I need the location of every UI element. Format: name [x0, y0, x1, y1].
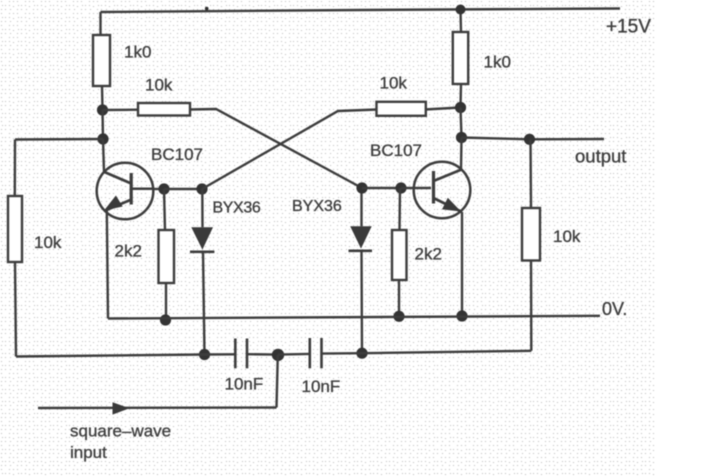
svg-text:BYX36: BYX36 [292, 198, 342, 215]
wire Q2 emitter down to 0V rail [461, 212, 463, 316]
wire R8 bottom down to trigger rail [530, 261, 533, 351]
wire trigger rail C1 to node P [248, 353, 278, 356]
node M junction top rail / R3 [456, 5, 466, 15]
node K junction R7 / 0V rail [393, 311, 404, 322]
wire R4 right to node G [425, 108, 461, 110]
resistor R8 10k right vertical [522, 208, 540, 261]
label +15V supply [606, 17, 651, 38]
label R5 value 10k [34, 233, 62, 252]
label Q2 type BC107 [370, 141, 422, 160]
svg-text:input: input [70, 443, 107, 462]
wire R2 right cross-coupling diagonal to Q2 base node [190, 109, 362, 188]
label R4 value 10k [380, 74, 408, 93]
svg-text:0V.: 0V. [602, 299, 627, 319]
diode D2 BYX36 right [349, 188, 373, 353]
diode D1 BYX36 left [190, 189, 214, 355]
svg-text:square–wave: square–wave [70, 421, 171, 440]
wire top +15V rail [101, 9, 621, 13]
svg-text:BYX36: BYX36 [213, 200, 261, 217]
wire left branch down to R5 [14, 140, 17, 197]
resistor R6 2k2 left vertical [159, 230, 175, 283]
node G junction R3 / R4 / collector rail [455, 102, 466, 113]
svg-text:10nF: 10nF [225, 375, 264, 394]
svg-text:output: output [575, 145, 626, 166]
label D2 type BYX36 [292, 198, 342, 215]
label R2 value 10k [145, 76, 173, 95]
wire node C to node D [164, 188, 202, 190]
resistor R5 10k far left vertical [8, 196, 22, 262]
svg-text:BC107: BC107 [370, 141, 422, 160]
wire node F to node J [362, 187, 401, 189]
node J junction Q2 base / R7 [395, 182, 406, 193]
label R1 value 1k0 [124, 43, 151, 62]
wire node O down to R8 [529, 139, 532, 208]
wire node B down to Q1 collector [103, 139, 104, 172]
node D junction Q1 base / D1 / cross-coupling [196, 183, 207, 194]
svg-text:BC107: BC107 [151, 145, 203, 164]
label R6 value 2k2 [115, 241, 142, 260]
transistor Q1 BC107 left [97, 163, 154, 220]
svg-text:10k: 10k [34, 233, 62, 252]
wire R7 top lead [398, 188, 401, 230]
wire R6 bottom to 0V rail [165, 283, 167, 319]
wire Q1 emitter down to 0V rail [107, 210, 108, 319]
wire R3 bottom to node G [459, 84, 462, 108]
wire node N down to Q2 collector [460, 138, 463, 170]
wire node J to Q2 base [401, 187, 431, 189]
svg-text:10k: 10k [145, 76, 173, 95]
wire +15V rail down to R3 [459, 10, 462, 33]
node H junction D1 / trigger rail [199, 349, 210, 360]
capacitor C1 10nF [235, 339, 247, 369]
node F junction Q2 base / D2 / cross-coupling [356, 182, 367, 193]
wire R7 bottom to 0V rail [398, 280, 400, 316]
svg-text:2k2: 2k2 [415, 245, 442, 264]
svg-text:1k0: 1k0 [484, 53, 511, 72]
wire R5 bottom down to trigger rail corner [15, 262, 16, 357]
wire node D cross-coupling diagonal to R4 [202, 110, 377, 190]
label output [575, 145, 626, 166]
node C junction Q1 base / R6 [158, 183, 169, 194]
svg-text:+15V: +15V [606, 17, 651, 38]
label Q1 type BC107 [151, 145, 203, 164]
node P junction trigger rail / input riser [272, 349, 284, 361]
wire trigger rail left segment [16, 354, 235, 356]
label square-wave input [70, 421, 171, 462]
svg-text:10k: 10k [553, 227, 581, 246]
svg-text:10nF: 10nF [302, 377, 341, 396]
label R7 value 2k2 [415, 245, 442, 264]
node I junction D2 / trigger rail [356, 348, 367, 359]
label R3 value 1k0 [484, 53, 511, 72]
svg-text:10k: 10k [380, 74, 408, 93]
wire 0V rail [108, 316, 600, 319]
node L junction Q2 emitter / 0V rail [456, 310, 467, 321]
resistor R3 1k0 right vertical [453, 32, 468, 84]
wire R1 bottom to node A [101, 86, 104, 110]
node O junction output line / R8 [524, 134, 535, 145]
wire input line with arrow [38, 402, 277, 414]
resistor R7 2k2 right vertical [392, 230, 407, 280]
capacitor C2 10nF [310, 338, 322, 368]
wire node A down to node B [101, 110, 104, 139]
wire node B to left branch [15, 138, 103, 141]
node E junction R6 / 0V rail [160, 314, 171, 325]
wire R1 top lead [99, 12, 101, 35]
resistor R1 1k0 left [93, 35, 110, 86]
node N junction collector rail / output branch [456, 132, 467, 143]
label D1 type BYX36 [213, 200, 261, 217]
wire input riser [277, 355, 278, 408]
label C1 value 10nF [225, 375, 264, 394]
transistor Q2 BC107 right [414, 162, 471, 219]
resistor R4 10k right horizontal [377, 102, 426, 116]
wire node G down to node N [461, 108, 462, 138]
resistor R2 10k left horizontal [138, 103, 190, 116]
label R8 value 10k [553, 227, 581, 246]
wire output line [462, 138, 605, 140]
label 0V [602, 299, 627, 319]
wire R6 top lead [164, 189, 165, 230]
wire node A to R2 [103, 108, 139, 111]
label C2 value 10nF [302, 377, 341, 396]
wire trigger rail C2 to R8 corner [323, 351, 532, 354]
wire Q1 base lead to node C [153, 188, 164, 190]
node A junction Q1 collector / R1 / R2 [97, 104, 108, 115]
node B junction collector wire / left branch [97, 133, 108, 144]
wire trigger rail node P to C2 [278, 353, 309, 356]
svg-text:1k0: 1k0 [124, 43, 151, 62]
svg-text:2k2: 2k2 [115, 241, 142, 260]
